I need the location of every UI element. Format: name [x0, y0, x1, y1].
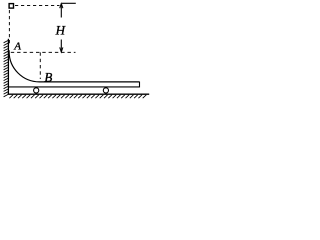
wall hatching [4, 41, 8, 97]
curved ramp (quarter arc) merging into plank top line [9, 50, 139, 82]
plank right edge [139, 82, 141, 88]
svg-text:A: A [13, 41, 21, 53]
top reference tick (solid) [62, 2, 76, 4]
dashed horizontal line from block to H arrow [15, 5, 60, 7]
ground hatching [9, 95, 146, 98]
H dimension lower arrowhead (down) [60, 47, 63, 52]
background [0, 0, 154, 102]
dashed vertical radius line down to B [39, 52, 41, 79]
wheel 1 [34, 88, 39, 93]
ground line [8, 93, 150, 95]
H dimension upper line [60, 3, 62, 17]
plank bottom line [8, 86, 139, 88]
dashed vertical line from block down to A [8, 10, 10, 44]
dashed horizontal line at ramp-top level [11, 51, 76, 53]
H dimension upper arrowhead (up) [60, 4, 63, 9]
block (small square) top-left [9, 4, 13, 9]
wall (vertical line) [7, 39, 9, 95]
wheel 2 [103, 88, 108, 93]
H dimension lower line [60, 40, 62, 53]
svg-text:H: H [55, 23, 66, 38]
